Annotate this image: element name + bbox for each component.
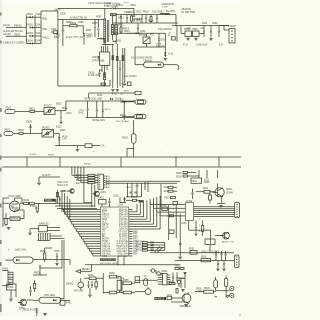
photocoupler PC603	[42, 126, 54, 137]
transformer T601 core	[108, 20, 109, 42]
coil box L551	[39, 295, 61, 303]
box cluster left1	[135, 277, 140, 283]
cap cluster above ic	[126, 183, 142, 197]
transistor Q301	[93, 191, 107, 196]
wire secondary rail3	[113, 22, 178, 24]
wire sec drop 3	[122, 48, 124, 88]
box IC551	[6, 284, 16, 290]
svg-text:C633: C633	[97, 95, 103, 97]
capacitor C321	[173, 202, 178, 205]
label left rows	[58, 182, 69, 187]
resistor R604	[63, 21, 83, 27]
wire tuner top	[15, 198, 24, 203]
wire r515 out	[213, 291, 215, 293]
wire mid col	[103, 273, 104, 294]
op-amp IC501 audio	[158, 271, 171, 285]
wire bridge right rail	[34, 15, 36, 43]
connector CN301	[98, 174, 106, 189]
svg-text:+: +	[8, 247, 10, 251]
resistor R452	[95, 278, 97, 290]
wire audio rail	[175, 260, 234, 262]
svg-text:C623: C623	[212, 23, 218, 25]
svg-text:MODE-SW1: MODE-SW1	[92, 120, 105, 122]
resistor R417	[202, 221, 204, 237]
svg-text:R201: R201	[176, 173, 182, 175]
transistor Q302	[60, 189, 74, 193]
wire b+ branch	[175, 15, 177, 26]
capacitor C505	[223, 261, 225, 269]
svg-text:D622: D622	[56, 104, 62, 106]
diode inside L604	[158, 64, 161, 66]
wire mid drop	[33, 265, 47, 275]
ground sec	[111, 90, 124, 96]
svg-text:R453: R453	[109, 273, 115, 275]
transformer T601 secondary winding A	[111, 25, 114, 35]
capacitor C502	[220, 251, 222, 261]
box DL401	[117, 278, 125, 290]
resistor R551	[40, 251, 46, 262]
resistor R321	[164, 186, 177, 189]
svg-text:IC501: IC501	[161, 271, 168, 273]
resistor R211	[196, 188, 215, 193]
capacitor C101	[35, 206, 37, 210]
svg-text:P602: P602	[5, 129, 11, 132]
svg-text:SAW101: SAW101	[39, 223, 49, 226]
svg-text:C415: C415	[181, 223, 187, 225]
wire tuner right drop	[38, 203, 39, 210]
capacitor C511	[176, 272, 178, 282]
diode D501	[180, 277, 186, 279]
wire secondary rail4	[113, 33, 165, 57]
capacitor C503	[225, 251, 227, 261]
svg-text:A 04(A779)-02: A 04(A779)-02	[70, 15, 87, 19]
wire ic402 below	[189, 221, 211, 244]
node bus tick 2	[59, 157, 61, 167]
resistor R510	[169, 281, 175, 285]
svg-text:C610: C610	[130, 4, 137, 7]
svg-text:L605: L605	[202, 23, 208, 25]
label ic402 pins	[199, 219, 201, 233]
resistor R301	[87, 174, 98, 176]
resistor R622	[18, 129, 42, 134]
ground out1	[186, 37, 189, 41]
capacitor C430	[179, 244, 181, 245]
svg-text:PC602: PC602	[44, 104, 52, 107]
wire IF out	[47, 228, 64, 239]
capacitor C510	[172, 272, 174, 282]
wire bottom rail	[55, 146, 105, 148]
diode D612	[134, 15, 142, 24]
svg-text:R512: R512	[167, 294, 173, 296]
crystal X401	[98, 197, 106, 207]
wire b12 line	[89, 91, 141, 99]
svg-text:L601 V-IN: L601 V-IN	[15, 249, 26, 252]
resistor R552	[34, 280, 36, 292]
wire oval2 lead	[122, 115, 134, 117]
wire right staircase	[133, 196, 161, 229]
svg-text:TU101 123P: TU101 123P	[8, 196, 21, 198]
svg-text:C6A2: C6A2	[36, 32, 43, 35]
svg-text:STR-F6656: STR-F6656	[92, 59, 105, 62]
ground fl501	[55, 264, 58, 266]
wire L604 leads	[135, 47, 179, 70]
svg-text:400V: 400V	[54, 36, 60, 39]
label T601	[88, 1, 111, 5]
svg-text:C615: C615	[88, 71, 95, 75]
svg-text:IC401 M37220: IC401 M37220	[101, 259, 117, 262]
wire h-stub	[39, 173, 60, 177]
parts q301 top	[120, 197, 127, 203]
wire fl501	[5, 260, 70, 265]
connector RL601	[135, 100, 146, 105]
resistor R302	[87, 177, 98, 179]
label rows	[120, 100, 126, 118]
wire secondary gnd rail	[131, 47, 165, 60]
svg-text:C605: C605	[60, 14, 66, 16]
svg-text:B+115V: B+115V	[166, 9, 175, 13]
capacitor C705	[96, 101, 98, 118]
label box E601	[111, 14, 118, 17]
label drive row	[204, 180, 210, 185]
svg-text:PC1: PC1	[150, 35, 155, 37]
svg-text:R551: R551	[40, 251, 46, 253]
svg-text:CN602: CN602	[228, 25, 236, 28]
label cn551 pins	[9, 273, 11, 285]
svg-text:PC601: PC601	[139, 34, 147, 37]
wire service	[3, 210, 24, 219]
resistor R612	[150, 15, 152, 24]
wire IC601 top pins	[102, 45, 108, 53]
wire bus drop group	[72, 167, 84, 203]
label tuner top	[8, 196, 21, 198]
svg-text:C624: C624	[66, 113, 72, 115]
node bus mark	[30, 149, 161, 168]
capacitor C606	[97, 19, 99, 37]
transformer T601 primary winding	[104, 19, 106, 43]
svg-text:R610: R610	[143, 12, 149, 14]
pot VR501	[177, 277, 180, 287]
svg-text:R612: R612	[148, 21, 154, 23]
resistor R304	[126, 197, 140, 201]
diode D622	[102, 101, 111, 118]
wire sec drop 1	[112, 44, 114, 88]
box T403	[205, 239, 215, 251]
label hot gnd	[116, 41, 122, 43]
ground tuner	[36, 211, 39, 213]
zener D611	[118, 15, 124, 24]
wire cluster joins	[120, 277, 121, 293]
fuse F502	[225, 276, 228, 290]
label e12 row	[124, 76, 137, 78]
capacitor C610	[130, 4, 137, 22]
regulator IC602	[184, 28, 192, 37]
box small mid	[121, 82, 131, 86]
svg-text:CN601 AC-CORD: CN601 AC-CORD	[3, 41, 24, 45]
resistor R614	[168, 32, 176, 41]
svg-text:C614: C614	[140, 31, 146, 33]
svg-text:R502: R502	[175, 266, 181, 268]
ground audio2	[183, 273, 186, 275]
wire riser right group	[161, 184, 165, 250]
svg-text:R611: R611	[129, 11, 135, 14]
resistor R451	[84, 275, 103, 279]
svg-text:C613: C613	[152, 12, 158, 14]
svg-text:R209: R209	[204, 182, 210, 184]
wire output rail	[172, 26, 229, 43]
resistor R515	[204, 288, 214, 293]
connector CN551	[1, 269, 14, 286]
resistor R621	[29, 107, 44, 112]
ground resonator	[88, 288, 92, 297]
resistor R313	[56, 190, 58, 204]
svg-text:AN3-SW: AN3-SW	[117, 254, 128, 258]
wire sec drop 4	[123, 48, 126, 86]
wire audio drops	[181, 272, 185, 288]
resistor R616	[101, 83, 106, 87]
diode inside L551	[53, 299, 56, 301]
capacitor C626	[26, 121, 33, 134]
wire reg rail	[181, 26, 204, 34]
dark part top	[139, 200, 144, 202]
resistor R430	[167, 215, 180, 217]
label bridge values	[42, 19, 50, 40]
svg-text:R202: R202	[176, 177, 182, 179]
diode D609	[113, 40, 116, 42]
wire T601 primary top pin	[104, 8, 106, 19]
resistor R303	[87, 179, 98, 181]
svg-text:IC551: IC551	[7, 287, 14, 289]
svg-text:E-AC (TTY)-(C): E-AC (TTY)-(C)	[66, 36, 83, 39]
label AC 120V	[3, 29, 23, 33]
svg-text:R624: R624	[60, 130, 66, 132]
svg-text:R323: R323	[164, 197, 170, 199]
wire xfmr bottom joins	[102, 44, 114, 45]
svg-text:+ A: + A	[168, 32, 172, 35]
resistor R613	[120, 23, 130, 34]
resistor R456	[121, 291, 135, 294]
diode D607 rectifier	[113, 4, 134, 9]
svg-text:R607: R607	[96, 17, 102, 19]
resistor R322	[164, 190, 177, 193]
svg-text:F7814 (V904): F7814 (V904)	[104, 6, 118, 8]
svg-text:R613: R613	[118, 25, 124, 27]
label bottom notes	[22, 309, 39, 312]
diode D502	[195, 288, 204, 292]
resistor R454	[103, 291, 121, 294]
ic402 right pins	[194, 207, 235, 217]
svg-text:T402: T402	[192, 181, 198, 183]
svg-text:L601: L601	[51, 28, 57, 31]
wire bridge to rail	[41, 11, 58, 17]
svg-text:E-12 (L9-5)V: E-12 (L9-5)V	[124, 76, 137, 78]
svg-text:B501: B501	[189, 248, 195, 250]
svg-text:D611: D611	[118, 17, 124, 20]
svg-text:L551 DEG: L551 DEG	[44, 295, 55, 297]
resistor R212	[209, 192, 212, 204]
svg-text:C303: C303	[113, 196, 119, 198]
svg-text:R515: R515	[204, 288, 210, 290]
resistor R202	[176, 175, 199, 179]
node AC-L input	[3, 23, 26, 27]
resistor R615	[103, 73, 105, 86]
svg-text:H.OUT: H.OUT	[42, 173, 51, 177]
capacitor C704	[78, 101, 88, 118]
parts left audio	[175, 266, 184, 270]
wire bus line 1	[0, 156, 241, 158]
svg-text:R601: R601	[42, 19, 48, 21]
label above ic	[113, 196, 124, 207]
label secondary values	[118, 2, 158, 37]
svg-text:C551: C551	[54, 251, 60, 253]
coil TP circles	[150, 269, 163, 276]
svg-text:D612: D612	[136, 21, 142, 23]
svg-text:SDA: SDA	[76, 174, 81, 177]
svg-text:R621: R621	[29, 107, 36, 110]
wire mid bus lines	[106, 181, 181, 183]
edge binder marks	[0, 13, 2, 313]
ground top-left	[37, 177, 41, 185]
capacitor C605	[94, 19, 96, 37]
wire left col bottom	[40, 240, 62, 268]
wire vert dots	[145, 182, 149, 192]
svg-text:D613: D613	[124, 31, 130, 33]
svg-text:D502: D502	[196, 288, 202, 290]
wire tuner to right	[39, 199, 56, 203]
svg-text:E-12: E-12	[168, 54, 174, 56]
capacitor C552	[29, 286, 31, 296]
svg-text:TH601: TH601	[42, 38, 50, 40]
svg-text:C311: C311	[126, 187, 132, 189]
svg-text:04(A)4793-02: 04(A)4793-02	[158, 28, 173, 31]
ground tuner2	[7, 228, 11, 230]
connector CN402	[235, 202, 240, 218]
svg-text:R510: R510	[169, 281, 175, 283]
wire posistor bottom	[127, 143, 134, 157]
svg-text:+: +	[93, 149, 95, 153]
resistor R455	[123, 280, 135, 285]
box CN401	[60, 300, 72, 305]
wire cn551 drop	[13, 272, 16, 297]
capacitor C451	[88, 281, 90, 288]
svg-text:D614: D614	[161, 40, 167, 42]
svg-text:R553: R553	[34, 273, 40, 275]
svg-text:ERA: ERA	[87, 36, 92, 39]
svg-text:E-12: E-12	[183, 45, 189, 47]
svg-text:R605: R605	[92, 23, 98, 25]
node bus tick 3	[175, 157, 177, 167]
label A 04A779-02	[70, 15, 87, 19]
svg-text:E-12 (S)GND SW701: E-12 (S)GND SW701	[131, 58, 153, 60]
ground out2	[194, 37, 197, 41]
wire top rail	[58, 7, 112, 9]
inductor L601	[51, 28, 57, 34]
svg-text:R101: R101	[24, 199, 31, 202]
ground q402	[219, 206, 222, 208]
label T-DAM	[54, 8, 61, 12]
capacitor C615	[88, 70, 102, 77]
svg-text:E601: E601	[116, 41, 122, 43]
connector CN101 pins	[37, 233, 50, 241]
svg-text:E-4(D): E-4(D)	[30, 154, 37, 156]
svg-text:D602: D602	[27, 22, 34, 26]
svg-text:CB401: CB401	[66, 284, 74, 286]
wire left stubs	[97, 209, 101, 256]
svg-text:VSS: VSS	[102, 254, 108, 258]
wire ic401 bottom pins	[118, 256, 125, 265]
connector CN501	[235, 255, 240, 268]
wire row252	[150, 252, 234, 253]
svg-text:+B(SUB): +B(SUB)	[181, 8, 191, 11]
wire q402 emitter	[217, 197, 225, 204]
svg-text:R501: R501	[201, 257, 207, 259]
box H-DRIVE T402	[191, 178, 202, 183]
regulator IC603	[192, 28, 199, 37]
jack J502	[230, 293, 234, 297]
svg-text:C612: C612	[136, 12, 142, 14]
svg-text:C6A2: C6A2	[36, 39, 43, 42]
svg-text:CN552 AC-DEG: CN552 AC-DEG	[22, 309, 39, 312]
svg-text:B-12 (SCAN): B-12 (SCAN)	[116, 120, 129, 123]
diode D605	[83, 26, 93, 40]
svg-text:C304: C304	[118, 205, 124, 207]
wire drop bends	[72, 175, 92, 203]
speaker SP501	[180, 293, 191, 308]
svg-text:P601: P601	[6, 107, 12, 110]
op-amp IC601 STR-F6656	[92, 52, 110, 65]
fuse F501	[214, 277, 218, 291]
svg-text:R311 4.7K: R311 4.7K	[58, 182, 69, 184]
box B501	[189, 248, 197, 254]
wire row1 right	[55, 101, 66, 111]
svg-text:AC(L): AC(L)	[3, 23, 10, 27]
svg-text:R617: R617	[124, 91, 130, 93]
resistor R611	[129, 11, 135, 23]
capacitor C611	[124, 11, 130, 23]
wire T601 sec pins	[113, 15, 117, 45]
svg-text:RU-2: RU-2	[105, 109, 111, 111]
connector RL602	[134, 114, 146, 119]
svg-text:R451: R451	[88, 275, 94, 277]
page margins	[0, 0, 241, 320]
svg-text:R623: R623	[62, 108, 68, 110]
label L601	[8, 247, 26, 252]
wire bridge out rail	[40, 17, 42, 43]
box pair right	[167, 294, 173, 299]
svg-text:IC402: IC402	[186, 201, 193, 203]
resistor R503	[171, 283, 178, 293]
diode D610	[119, 60, 121, 86]
svg-text:D603: D603	[27, 31, 34, 35]
svg-text:R304: R304	[131, 197, 137, 199]
svg-text:C601: C601	[42, 29, 48, 31]
photocoupler PC602	[44, 104, 55, 114]
resistor R102	[29, 202, 38, 208]
svg-text:.: .	[160, 149, 161, 153]
label +B 115V	[181, 8, 195, 14]
wire right stubs	[129, 209, 133, 256]
ic402 left pins	[173, 205, 185, 216]
transistor Q402	[212, 188, 233, 197]
svg-text:R603: R603	[66, 22, 72, 24]
ground speaker	[184, 305, 188, 307]
capacitor C620	[203, 26, 205, 38]
svg-text:C606: C606	[78, 22, 84, 24]
label primary values	[60, 14, 102, 33]
label AN5512 dark	[154, 296, 166, 300]
label LOW+12V	[183, 44, 223, 47]
svg-text:RESET: RESET	[82, 269, 90, 271]
wire speaker	[171, 298, 183, 302]
